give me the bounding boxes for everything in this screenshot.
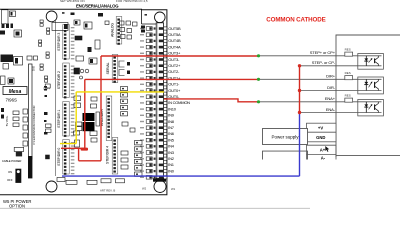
svg-text:OUT5B: OUT5B	[168, 26, 181, 31]
per-pin filter components column	[140, 27, 156, 179]
svg-text:OPTION: OPTION	[9, 204, 25, 209]
stepper driver box	[336, 35, 400, 157]
resistor RES3	[345, 94, 353, 103]
svg-text:ENC/SERIAL/ANALOG: ENC/SERIAL/ANALOG	[76, 3, 119, 8]
optocoupler OC3	[358, 100, 384, 116]
pin OUT3+	[164, 51, 181, 56]
header STEP/DIR 1	[57, 102, 75, 137]
pin IN COMMON	[164, 100, 190, 105]
terminal block +V / GND	[307, 123, 337, 142]
svg-text:IN4: IN4	[168, 144, 175, 149]
svg-text:IN8: IN8	[168, 119, 175, 124]
junction ENA+	[257, 100, 260, 103]
svg-text:A-: A-	[321, 156, 326, 161]
svg-text:STEP/DIR 0: STEP/DIR 0	[57, 148, 61, 166]
signal line ENA-	[300, 107, 358, 113]
svg-text:RES: RES	[345, 71, 351, 75]
pin OUT1+	[164, 75, 181, 80]
wire yellow OUT0+	[60, 92, 164, 144]
misc components right-mid zone	[52, 12, 145, 176]
header STEP/DIR 3	[57, 25, 75, 60]
header ANALOG	[111, 17, 122, 45]
svg-text:IN COMMON: IN COMMON	[168, 100, 190, 105]
resistor RES1	[345, 48, 353, 56]
wire red ENA+ to driver	[164, 99, 259, 102]
terminal block A+ / A-	[307, 145, 337, 161]
svg-text:OUT3-: OUT3-	[168, 57, 180, 62]
header STEP/DIR 2	[57, 63, 75, 98]
svg-text:RES: RES	[345, 48, 351, 52]
pin IN6	[164, 131, 175, 136]
pin OUT4A	[164, 44, 181, 49]
Mesa logo box	[3, 87, 51, 103]
svg-text:OUT2-: OUT2-	[168, 69, 180, 74]
svg-text:OUT1-: OUT1-	[168, 82, 180, 87]
svg-text:Power supply: Power supply	[271, 134, 299, 139]
terminal strip clamp screws	[159, 27, 163, 178]
svg-text:IN2: IN2	[168, 156, 175, 161]
svg-text:SERIAL: SERIAL	[106, 62, 110, 74]
optocoupler OC2	[358, 77, 384, 94]
svg-text:STEP/DIR 3: STEP/DIR 3	[57, 33, 61, 51]
svg-text:OUT3+: OUT3+	[168, 51, 181, 56]
svg-text:RES: RES	[345, 94, 351, 98]
pin IN5	[164, 137, 175, 142]
svg-text:FOR 7I96S/7I96 I/O 4,5: FOR 7I96S/7I96 I/O 4,5	[116, 0, 148, 3]
IC U5 (black)	[76, 113, 95, 131]
motor box	[263, 151, 308, 159]
pin IN8	[164, 119, 175, 124]
svg-text:DIR-: DIR-	[327, 85, 336, 90]
pin IN9	[164, 113, 175, 118]
pin IN7	[164, 125, 175, 130]
mounting hole top-right	[155, 12, 166, 23]
pin IN0	[164, 168, 175, 173]
junction DIR-	[298, 89, 301, 92]
svg-text:5V POL: 5V POL	[5, 115, 9, 126]
bottom row components	[57, 178, 176, 193]
header STEP/DIR 4	[106, 138, 118, 175]
misc components top-left	[0, 10, 38, 146]
mounting hole top-left	[46, 11, 57, 22]
svg-text:ENA-: ENA-	[326, 107, 336, 112]
wire red DIR+ to driver	[85, 78, 259, 80]
power supply box	[263, 129, 308, 145]
svg-text:OUT2+: OUT2+	[168, 63, 181, 68]
mounting hole bottom-left	[46, 181, 57, 192]
PCB board outline 7I96S	[0, 9, 167, 195]
red junction blob	[81, 148, 88, 151]
svg-text:OUT4B: OUT4B	[168, 38, 181, 43]
svg-text:CABLE POWER: CABLE POWER	[2, 159, 21, 163]
svg-text:STEP- or CP-: STEP- or CP-	[312, 60, 336, 65]
pin OUT5B	[164, 26, 181, 31]
svg-text:STEP+ or CP+: STEP+ or CP+	[310, 50, 336, 55]
wire red STEP vertical (board)	[79, 56, 101, 161]
svg-text:IN3: IN3	[168, 150, 175, 155]
pin OUT2+	[164, 63, 181, 68]
signal line ENA+	[259, 96, 358, 102]
header SERIAL	[106, 55, 118, 83]
svg-text:STEP/DIR 4: STEP/DIR 4	[106, 146, 110, 164]
svg-text:COMMON CATHODE: COMMON CATHODE	[266, 17, 325, 24]
svg-text:W2: W2	[142, 186, 147, 190]
junction DIR+	[257, 78, 260, 81]
svg-text:IN6: IN6	[168, 131, 175, 136]
junction STEP-	[298, 64, 301, 67]
pin OUT3-	[164, 57, 180, 62]
svg-text:Mesa: Mesa	[9, 89, 22, 95]
svg-text:A+: A+	[320, 148, 326, 153]
mounting hole bottom-right	[154, 181, 166, 193]
pin OUT0+	[164, 88, 181, 93]
wire red common vertical (driver)	[299, 66, 301, 113]
P1 expansion connector	[29, 64, 37, 159]
svg-text:DIO: DIO	[32, 65, 36, 71]
pin IN10	[164, 106, 177, 111]
header ENCODER	[100, 96, 112, 141]
pin OUT4B	[164, 38, 181, 43]
pin OUT2-	[164, 69, 180, 74]
signal line DIR+	[259, 74, 358, 80]
svg-text:IN10: IN10	[168, 106, 176, 111]
resistor RES2	[345, 71, 353, 80]
svg-text:OUT5A: OUT5A	[168, 32, 181, 37]
svg-text:IN0: IN0	[168, 168, 175, 173]
misc components mid zone	[71, 13, 110, 148]
svg-text:STEP/DIR 2: STEP/DIR 2	[57, 71, 61, 89]
svg-text:IN5: IN5	[168, 137, 175, 142]
svg-text:IN1: IN1	[168, 162, 175, 167]
pin IN4	[164, 144, 175, 149]
junction ENA-	[298, 111, 301, 114]
separator line	[0, 207, 310, 209]
svg-text:7I96S: 7I96S	[6, 98, 18, 103]
connector bar W3	[28, 156, 32, 178]
svg-text:OUT0+: OUT0+	[168, 88, 181, 93]
svg-text:W1: W1	[171, 187, 176, 191]
header STEP/DIR 0	[57, 140, 75, 175]
pin OUT0-	[164, 94, 180, 99]
signal line STEP- or CP-	[300, 60, 358, 66]
CABLE POWER switch	[2, 147, 24, 183]
pin spare below IN0	[164, 176, 167, 179]
wire blue common return	[62, 113, 300, 177]
pin IN2	[164, 156, 175, 161]
pin OUT5A	[164, 32, 181, 37]
svg-text:IN7: IN7	[168, 125, 175, 130]
svg-text:DIR+: DIR+	[326, 74, 336, 79]
pin IN3	[164, 150, 175, 155]
svg-text:STEP/DIR 1: STEP/DIR 1	[57, 110, 61, 128]
optocoupler OC1	[358, 54, 384, 70]
misc components column x40	[39, 20, 56, 176]
svg-text:ON: ON	[8, 170, 12, 174]
pin OUT1-	[164, 82, 180, 87]
terminal strip TB1/TB2 body	[156, 23, 163, 179]
svg-text:OUT4A: OUT4A	[168, 44, 181, 49]
top caption (cropped)	[60, 0, 148, 3]
svg-text:IN9: IN9	[168, 113, 175, 118]
signal line DIR-	[300, 85, 358, 91]
svg-text:GND: GND	[316, 135, 325, 140]
wire red DIR vertical (board)	[61, 79, 85, 148]
svg-text:ANALOG: ANALOG	[111, 23, 115, 37]
junction STEP+	[257, 54, 260, 57]
svg-text:OFF: OFF	[7, 178, 13, 182]
svg-text:ART REV. B: ART REV. B	[100, 189, 115, 193]
wire red STEP+ to driver	[101, 55, 259, 57]
svg-text:SET W5/JPR2 ON: SET W5/JPR2 ON	[60, 0, 85, 3]
svg-text:P1 EXPANSION CONNECTOR: P1 EXPANSION CONNECTOR	[32, 105, 36, 144]
signal line STEP+ or CP+	[259, 50, 358, 56]
connector shroud top-right	[142, 10, 157, 24]
pin IN1	[164, 162, 175, 167]
svg-text:ENA+: ENA+	[325, 96, 336, 101]
svg-text:+V: +V	[318, 125, 323, 130]
W5 PI POWER OPTION label	[3, 199, 31, 209]
